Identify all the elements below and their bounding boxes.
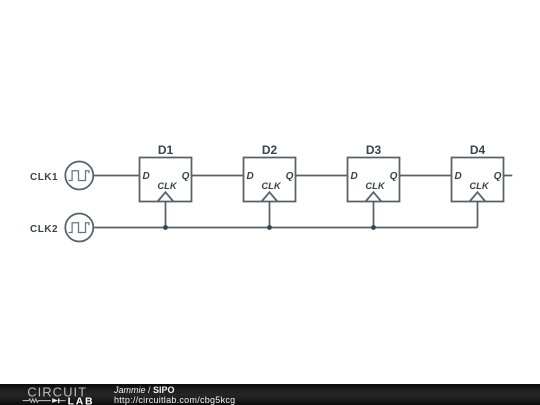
flip-flop U1 (D1) body: [140, 158, 192, 202]
svg-text:D1: D1: [158, 143, 174, 157]
svg-text:D3: D3: [366, 143, 382, 157]
svg-text:LAB: LAB: [68, 395, 95, 405]
wire D2 clock drop: [269, 202, 271, 228]
junction node D3 clk: [371, 225, 376, 230]
flip-flop U2 (D2) body: [244, 158, 296, 202]
wire CLK2 bus: [93, 227, 478, 229]
wire D1 clock drop: [165, 202, 167, 228]
voltage source CLK1 (square-wave source): [65, 162, 93, 190]
pin labels D2: [247, 171, 294, 191]
svg-text:CLK: CLK: [365, 180, 385, 191]
junction node D2 clk: [267, 225, 272, 230]
svg-text:CLK: CLK: [469, 180, 489, 191]
svg-text:Q: Q: [390, 171, 398, 182]
clock edge triangle D2: [262, 192, 278, 201]
svg-text:Q: Q: [286, 171, 294, 182]
logo resistor zigzag and wire: [23, 399, 66, 404]
pin labels D4: [455, 171, 502, 191]
CircuitLab logo: [0, 384, 110, 405]
svg-text:CLK: CLK: [157, 180, 177, 191]
svg-text:CLK2: CLK2: [30, 224, 58, 235]
svg-text:D4: D4: [470, 143, 486, 157]
clock edge triangle D3: [366, 192, 382, 201]
credit text: [114, 384, 235, 405]
clock edge triangle D4: [470, 192, 486, 201]
svg-text:D2: D2: [262, 143, 278, 157]
svg-text:Q: Q: [494, 171, 502, 182]
wire D4.Q output stub: [504, 175, 513, 177]
wire D3.Q to D4.D: [400, 175, 452, 177]
logo diode triangle: [52, 398, 58, 403]
svg-text:D: D: [351, 171, 358, 182]
svg-text:D: D: [247, 171, 254, 182]
pin labels D1: [143, 171, 190, 191]
svg-text:D: D: [143, 171, 150, 182]
flip-flop U4 (D4) body: [452, 158, 504, 202]
wire D4 clock drop: [477, 202, 479, 228]
wire D2.Q to D3.D: [296, 175, 348, 177]
wire D3 clock drop: [373, 202, 375, 228]
svg-text:Q: Q: [182, 171, 190, 182]
junction node D1 clk: [163, 225, 168, 230]
voltage source CLK2 (square-wave source): [65, 214, 93, 242]
wire D1.Q to D2.D: [192, 175, 244, 177]
footer bar: [0, 384, 540, 405]
svg-text:CLK1: CLK1: [30, 172, 58, 183]
pin labels D3: [351, 171, 398, 191]
wire CLK1 to D1.D: [93, 175, 140, 177]
flip-flop U3 (D3) body: [348, 158, 400, 202]
clock edge triangle D1: [158, 192, 174, 201]
svg-text:CLK: CLK: [261, 180, 281, 191]
svg-text:D: D: [455, 171, 462, 182]
